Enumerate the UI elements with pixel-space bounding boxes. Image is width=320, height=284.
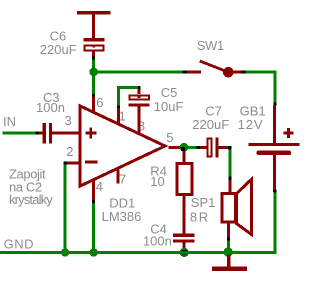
wire pin 4 to ground rail (vertical) <box>92 203 95 254</box>
capacitor C5 <box>128 89 149 135</box>
svg-text:C7: C7 <box>205 103 222 118</box>
svg-text:LM386: LM386 <box>102 209 142 224</box>
wire speaker to ground rail (vertical green) <box>227 240 230 252</box>
node speaker ground junction <box>224 247 233 256</box>
speaker SP1 <box>222 179 252 234</box>
svg-text:4: 4 <box>96 179 103 194</box>
pin end marker (pin 6) <box>92 94 95 97</box>
capacitor C6 <box>84 38 105 56</box>
node output junction <box>180 143 189 152</box>
svg-text:SW1: SW1 <box>197 38 224 53</box>
svg-text:10uF: 10uF <box>154 99 184 114</box>
wire pin 6 (green from +12V junction) <box>92 73 95 94</box>
resistor R4 <box>177 164 192 195</box>
capacitor C4 <box>173 233 194 249</box>
wire pin 2 to ground rail (vertical) <box>64 165 67 255</box>
wire pin 1 to C5 (vertical) <box>117 86 120 106</box>
pin end marker (speaker top) <box>228 177 231 180</box>
pin end marker (output junction) <box>181 147 185 151</box>
pin end marker (C7 left) <box>196 146 200 149</box>
svg-text:IN: IN <box>3 114 16 129</box>
svg-text:3: 3 <box>65 113 72 128</box>
svg-text:5: 5 <box>166 130 173 145</box>
pin end marker (pin 2) <box>63 162 67 165</box>
switch SW1 <box>187 61 241 77</box>
svg-text:7: 7 <box>119 171 126 186</box>
battery GB1 <box>249 105 300 192</box>
pin end marker (C7 right corner) <box>228 146 232 150</box>
pin 2 stub <box>67 162 80 165</box>
wire switch to battery (horizontal) <box>245 70 276 73</box>
pin end marker (battery plus) <box>273 103 276 106</box>
pin end marker (pin 4) <box>92 200 95 203</box>
node pin2 ground junction <box>61 248 69 256</box>
svg-text:8R: 8R <box>190 209 210 224</box>
node C4 ground junction <box>180 248 189 257</box>
svg-text:2: 2 <box>66 144 73 159</box>
pin 5 output stub <box>169 146 182 149</box>
wire C7 to speaker (vertical green) <box>228 150 231 177</box>
pin end marker (C5 top) <box>138 86 141 89</box>
speaker top stub <box>228 180 231 192</box>
op-amp DD1 LM386 triangle <box>80 106 165 186</box>
pin end marker (C4 bottom) <box>181 250 187 255</box>
svg-text:10: 10 <box>150 174 164 189</box>
capacitor C3 <box>39 123 79 143</box>
wire C6 to +12V junction <box>92 60 95 71</box>
wire +12V horizontal (junction to switch) <box>92 70 182 73</box>
pin 6 stub <box>92 97 95 114</box>
wire output junction to R4 (vertical) <box>183 151 186 162</box>
capacitor C7 <box>200 138 228 158</box>
pin end marker (C6 bottom) <box>92 57 95 60</box>
wire output junction to C7 (horizontal) <box>186 146 196 149</box>
wire battery to ground rail (vertical) <box>273 192 276 254</box>
pin 1 stub <box>117 108 120 124</box>
svg-text:krystalky: krystalky <box>9 192 53 207</box>
pin 4 stub <box>92 180 95 201</box>
wire pin 1 to C5 (horizontal) <box>117 86 138 89</box>
svg-text:100n: 100n <box>143 234 172 249</box>
ground symbol (bottom) <box>212 254 247 271</box>
op-amp minus input symbol <box>85 161 98 164</box>
pin end marker (speaker bottom) <box>227 238 230 241</box>
svg-text:12V: 12V <box>238 117 264 132</box>
svg-text:GND: GND <box>4 237 34 252</box>
ground symbol (top, flipped, above C6) <box>77 11 111 38</box>
op-amp plus input symbol <box>85 128 96 139</box>
node pin4 ground junction <box>90 248 98 256</box>
svg-text:GB1: GB1 <box>240 103 266 118</box>
pin end marker (switch right) <box>241 70 245 73</box>
svg-text:6: 6 <box>96 95 103 110</box>
wire IN (horizontal) <box>3 131 36 134</box>
pin 7 stub <box>117 170 120 184</box>
svg-text:220uF: 220uF <box>192 117 229 132</box>
svg-text:SP1: SP1 <box>191 195 216 210</box>
wire battery drop (vertical green) <box>273 70 276 102</box>
pin end marker (switch left) <box>183 70 188 73</box>
pin end marker (pin 1) <box>117 106 120 109</box>
wire ground rail (horizontal) <box>0 251 276 254</box>
pin end marker (battery minus) <box>273 190 276 193</box>
svg-text:220uF: 220uF <box>40 42 77 57</box>
svg-text:100n: 100n <box>36 100 65 115</box>
speaker bottom stub <box>227 224 230 238</box>
pin end marker (C3 left) <box>36 131 39 134</box>
wire R4 to C4 (vertical) <box>183 196 186 233</box>
node +12V junction <box>89 68 98 77</box>
